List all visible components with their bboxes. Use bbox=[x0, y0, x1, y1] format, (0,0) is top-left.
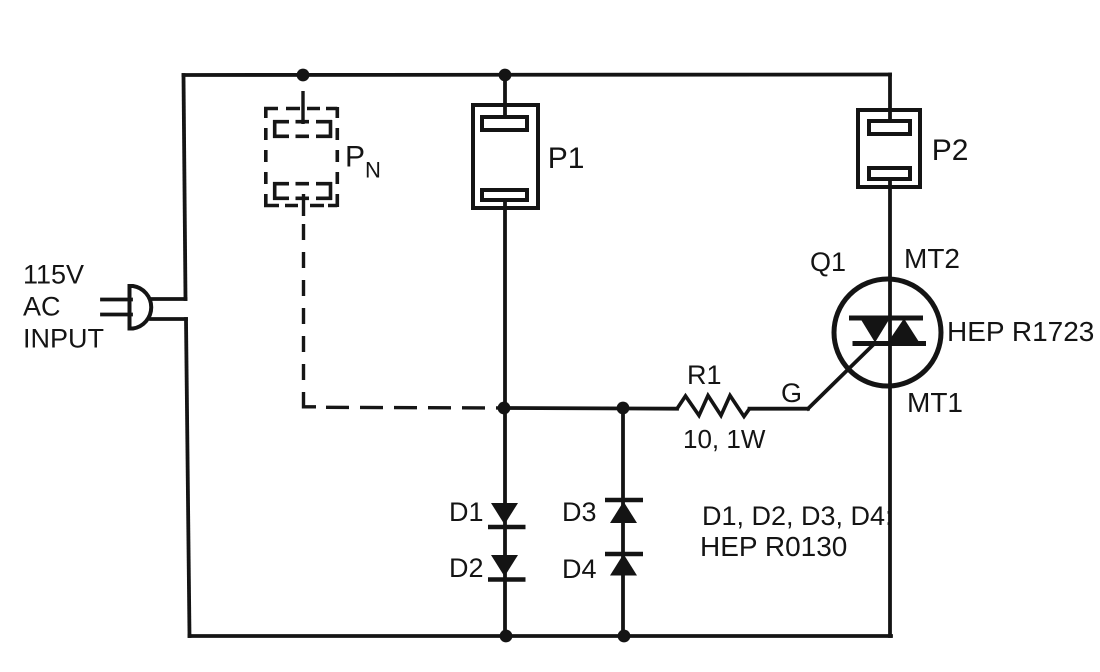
svg-text:G: G bbox=[781, 378, 802, 408]
svg-text:115V: 115V bbox=[23, 260, 84, 290]
svg-text:D1, D2, D3, D4:: D1, D2, D3, D4: bbox=[702, 501, 893, 531]
svg-text:MT2: MT2 bbox=[904, 243, 960, 274]
svg-text:P1: P1 bbox=[548, 142, 585, 175]
svg-text:INPUT: INPUT bbox=[23, 324, 104, 354]
svg-text:R1: R1 bbox=[687, 360, 722, 390]
svg-text:D4: D4 bbox=[562, 554, 597, 584]
svg-text:P2: P2 bbox=[932, 134, 969, 167]
svg-text:HEP R0130: HEP R0130 bbox=[700, 531, 847, 562]
svg-text:10, 1W: 10, 1W bbox=[683, 424, 766, 454]
svg-text:MT1: MT1 bbox=[907, 387, 963, 418]
svg-text:D1: D1 bbox=[449, 497, 484, 527]
svg-text:Q1: Q1 bbox=[810, 247, 846, 277]
svg-text:AC: AC bbox=[23, 292, 61, 322]
svg-text:HEP R1723: HEP R1723 bbox=[947, 316, 1094, 347]
svg-text:D3: D3 bbox=[562, 497, 597, 527]
svg-text:D2: D2 bbox=[449, 553, 484, 583]
svg-text:PN: PN bbox=[345, 141, 381, 183]
